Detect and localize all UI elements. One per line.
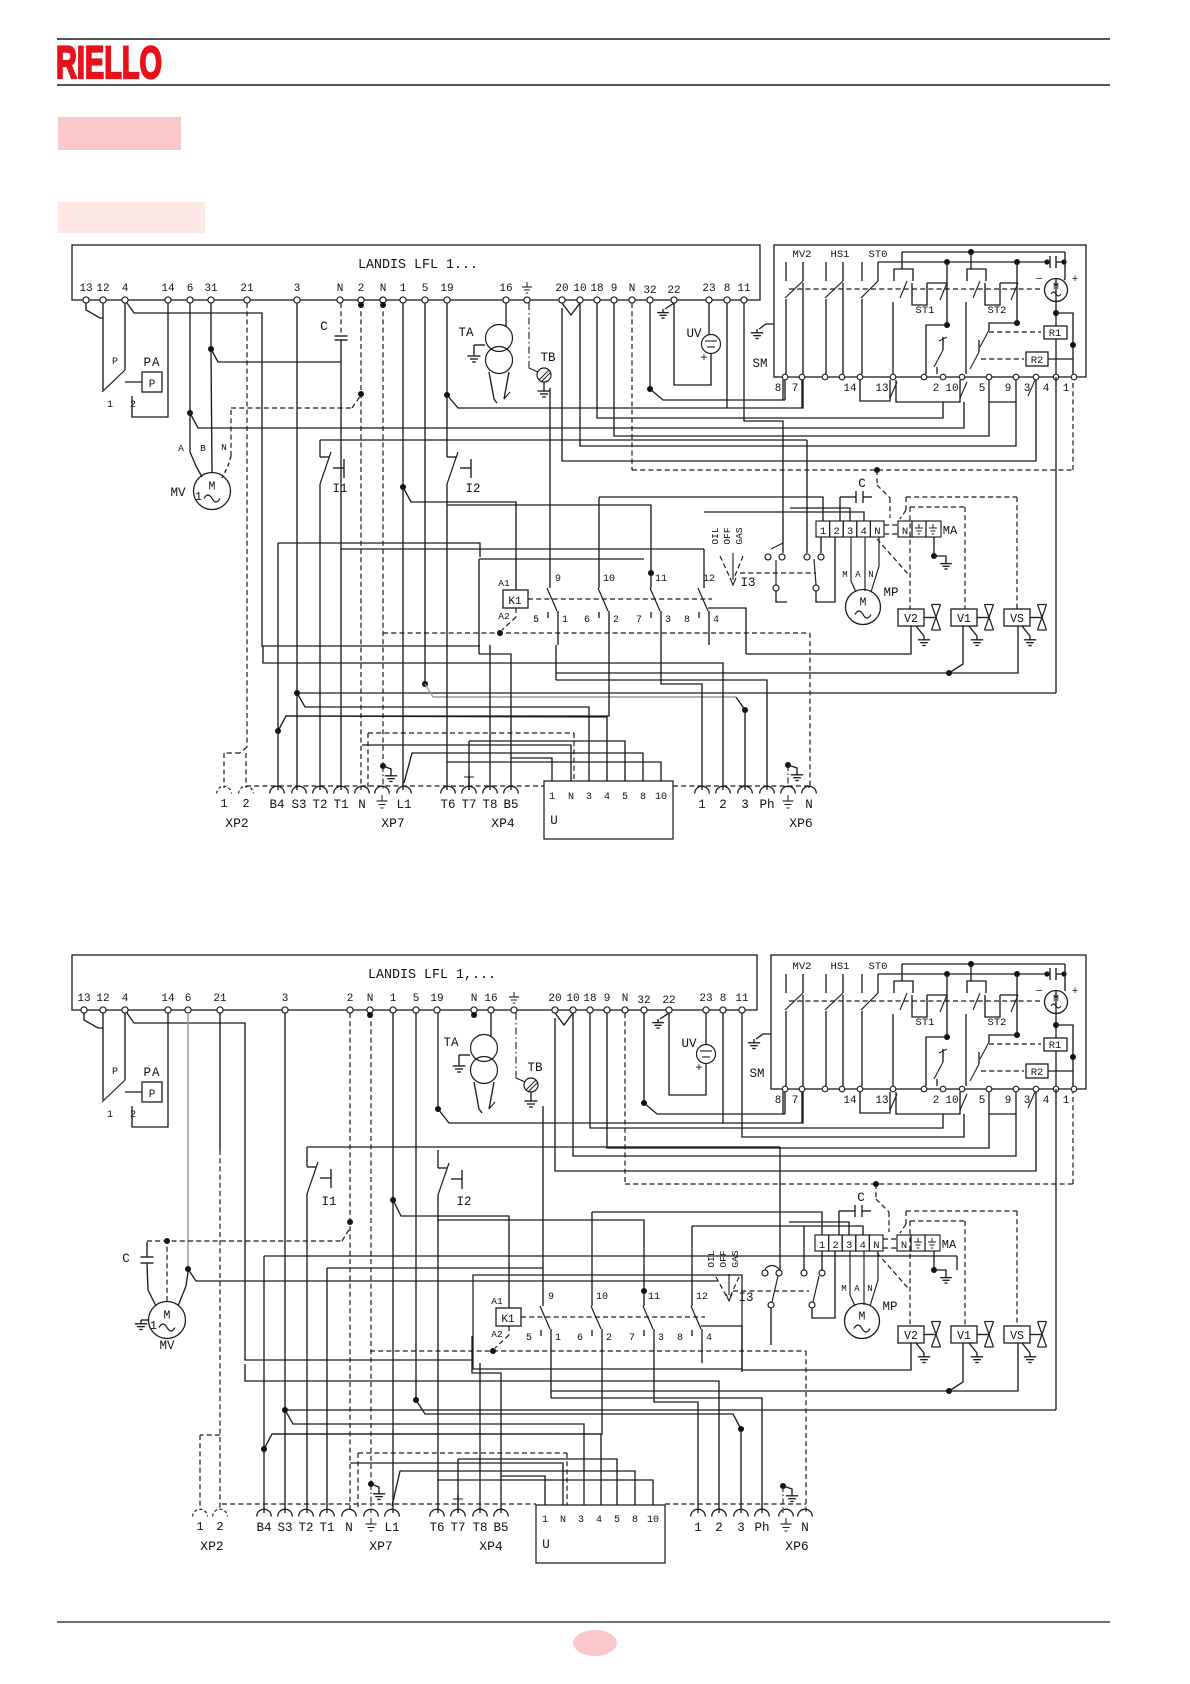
svg-text:11: 11 [737, 283, 751, 295]
valve V2 d2 [898, 1326, 924, 1343]
wire P-2 to terminal 14 d2 [132, 1013, 168, 1127]
svg-text:UV: UV [686, 327, 702, 341]
V1 VS return wires [946, 670, 952, 676]
wire terminal 5 down [424, 303, 426, 684]
svg-text:N: N [874, 526, 880, 538]
SM mid contact [942, 337, 944, 350]
dashed enclosure XP7-U [368, 732, 574, 734]
svg-text:4: 4 [706, 1333, 712, 1344]
svg-text:2: 2 [832, 1240, 838, 1252]
svg-text:PA: PA [143, 1066, 160, 1080]
svg-text:7: 7 [636, 615, 642, 626]
MA-3 feed d2 [789, 1222, 849, 1235]
header rule bottom [57, 84, 1110, 86]
svg-text:10: 10 [945, 1095, 958, 1107]
svg-text:UV: UV [681, 1037, 697, 1051]
svg-text:10: 10 [603, 574, 615, 585]
svg-text:SM: SM [752, 357, 767, 371]
svg-text:2: 2 [613, 615, 619, 626]
relay K1 assembly frame [479, 558, 644, 560]
svg-text:K1: K1 [508, 596, 522, 608]
wire I2 to K1-11 [446, 484, 448, 790]
svg-text:T7: T7 [450, 1521, 465, 1535]
SM top feed buses [902, 251, 1065, 253]
T7 break d2 [457, 1495, 459, 1513]
dashed enclosure XP7-U d2 [358, 1452, 567, 1454]
bus terminal 32 to SM-8 d2 [644, 1092, 783, 1114]
dashed neutral bus under K1 to XP6-N d2 [370, 1350, 806, 1352]
XP7 ground d2 [368, 1481, 374, 1487]
svg-text:B4: B4 [256, 1521, 271, 1535]
svg-text:ST0: ST0 [869, 961, 888, 973]
svg-text:GAS: GAS [730, 1250, 741, 1267]
bus S3 to SM servomotor loop [297, 692, 1056, 694]
svg-text:−: − [1036, 274, 1043, 286]
dashed enclosure XP7-XP4-XP6 d2 [222, 1503, 536, 1505]
svg-text:23: 23 [702, 283, 715, 295]
grey wire terminal 6 to MV [187, 1013, 189, 1269]
svg-text:5: 5 [622, 792, 628, 803]
svg-text:MV2: MV2 [793, 961, 812, 973]
svg-text:22: 22 [667, 285, 680, 297]
svg-text:7: 7 [792, 1095, 799, 1107]
svg-text:3: 3 [741, 798, 749, 812]
svg-text:A: A [855, 570, 861, 580]
svg-text:12: 12 [696, 1292, 708, 1303]
svg-text:Ph: Ph [759, 798, 774, 812]
svg-text:2: 2 [130, 400, 136, 411]
svg-text:I3: I3 [738, 1291, 753, 1305]
svg-text:1: 1 [400, 283, 407, 295]
MA ground d2 [933, 1251, 935, 1270]
svg-text:18: 18 [590, 283, 603, 295]
wire SM-8 vertical d2 [784, 1092, 786, 1114]
svg-text:MP: MP [882, 1300, 897, 1314]
terminal strip XP2 d2 [193, 1509, 208, 1516]
svg-text:5: 5 [979, 383, 986, 395]
dashed enclosure XP7-XP4-XP6 [246, 785, 544, 787]
svg-text:20: 20 [548, 993, 561, 1005]
svg-text:12: 12 [96, 993, 109, 1005]
svg-text:I2: I2 [465, 482, 480, 496]
pressure switch P d2 [124, 1013, 126, 1080]
branch to SM-1 d2 [1056, 1025, 1073, 1086]
svg-text:18: 18 [583, 993, 596, 1005]
svg-text:9: 9 [548, 1292, 554, 1303]
svg-text:M: M [164, 1310, 171, 1323]
svg-text:ST1: ST1 [916, 1017, 935, 1029]
svg-text:3: 3 [586, 792, 592, 803]
B5 feed [479, 654, 511, 790]
dashed neutral terminal N d2 [370, 1013, 372, 1482]
MV ground d2 [141, 1319, 149, 1321]
svg-text:14: 14 [843, 1095, 857, 1107]
B4 feed from K1-2 [278, 645, 609, 731]
wire terminal 11 to SM-5 d2 [742, 1013, 964, 1137]
SM internal dashed linkage [789, 288, 1040, 290]
svg-text:VS: VS [1010, 1330, 1024, 1343]
valve V1 [951, 609, 977, 626]
svg-text:23: 23 [699, 993, 712, 1005]
svg-text:OIL: OIL [710, 527, 721, 544]
svg-text:16: 16 [484, 993, 497, 1005]
svg-text:12: 12 [96, 283, 109, 295]
svg-text:T7: T7 [461, 798, 476, 812]
U box [544, 781, 673, 839]
terminal strip XP4 d2 [430, 1509, 445, 1516]
dashed wire terminal 21 to XP2 [246, 303, 248, 747]
svg-text:19: 19 [430, 993, 443, 1005]
svg-text:1: 1 [1063, 383, 1070, 395]
svg-text:A1: A1 [491, 1296, 503, 1307]
B4 feed from K1-2 d2 [264, 1363, 602, 1449]
svg-text:XP6: XP6 [785, 1539, 808, 1554]
svg-text:3: 3 [578, 1515, 584, 1526]
svg-text:31: 31 [204, 283, 218, 295]
svg-text:N: N [867, 1284, 872, 1294]
svg-text:ST2: ST2 [988, 305, 1007, 317]
XP6-2 feed [263, 646, 723, 790]
svg-text:2: 2 [216, 1520, 223, 1534]
svg-text:C: C [858, 477, 866, 491]
XP6 ground [785, 762, 791, 768]
K1 coil dashed actuation [528, 598, 712, 600]
svg-text:9: 9 [604, 993, 611, 1005]
SM aux contact to R1 d2 [980, 1042, 989, 1059]
relay K1 assembly box d2 [473, 1275, 742, 1369]
wire terminal 5 down d2 [415, 1013, 417, 1400]
svg-text:1: 1 [698, 798, 706, 812]
svg-text:C: C [122, 1252, 130, 1266]
svg-text:12: 12 [703, 574, 715, 585]
terminal strip MA [816, 521, 830, 537]
svg-text:1: 1 [819, 1240, 825, 1252]
svg-text:HS1: HS1 [831, 961, 850, 973]
svg-text:XP2: XP2 [225, 816, 248, 831]
MA N-box dashed to valve enclosure [877, 539, 908, 574]
svg-text:1: 1 [1063, 1095, 1070, 1107]
B4 top feed [278, 543, 480, 557]
feed to K1-9 [549, 388, 551, 588]
wire terminal 20 to SM-4 [562, 308, 1036, 461]
svg-text:R2: R2 [1031, 355, 1044, 367]
footer pink oval [573, 1630, 617, 1656]
svg-text:K1: K1 [501, 1314, 515, 1326]
SM ground d2 [756, 1034, 771, 1039]
svg-text:13: 13 [77, 993, 90, 1005]
XP6 Ph feed from K1-1 d2 [551, 1398, 762, 1513]
svg-text:1: 1 [107, 1110, 113, 1121]
svg-text:7: 7 [629, 1333, 635, 1344]
svg-text:SM: SM [749, 1067, 764, 1081]
U staircase wires d2 [458, 1459, 617, 1505]
MA N-box dashed to valve enclosure d2 [877, 1253, 908, 1288]
svg-text:Ph: Ph [754, 1521, 769, 1535]
SM terminals [782, 374, 788, 380]
wire terminal 8 to bus d2 [722, 1013, 724, 1123]
relay R1 [1044, 326, 1067, 339]
svg-text:10: 10 [945, 383, 958, 395]
svg-text:OFF: OFF [722, 527, 733, 544]
svg-text:L1: L1 [396, 798, 411, 812]
svg-text:B: B [200, 443, 206, 454]
svg-text:4: 4 [596, 1515, 602, 1526]
svg-text:1: 1 [150, 1320, 157, 1333]
svg-text:6: 6 [185, 993, 192, 1005]
svg-text:20: 20 [555, 283, 568, 295]
valve V2 [898, 609, 924, 626]
dots terminals N d2 [367, 1012, 373, 1018]
SM terminals d2 [782, 1086, 788, 1092]
svg-text:L1: L1 [384, 1521, 399, 1535]
terminal 22 ground tick [665, 303, 674, 309]
SM top feed buses d2 [902, 963, 1065, 965]
K1-10 feed with MA-1 [598, 497, 600, 588]
XP7 ground [380, 763, 386, 769]
svg-text:N: N [901, 1240, 907, 1252]
svg-text:A2: A2 [491, 1329, 503, 1340]
svg-text:4: 4 [1043, 383, 1050, 395]
wire terminal 32 down [649, 303, 651, 389]
svg-text:A: A [178, 443, 184, 454]
svg-text:V2: V2 [904, 1330, 918, 1343]
T1 feed rail [341, 548, 704, 550]
svg-text:P: P [149, 379, 156, 391]
svg-text:1: 1 [390, 993, 397, 1005]
jumper terminals 20-10 d2 [555, 1013, 573, 1025]
U staircase wires [469, 741, 625, 781]
branch terminal 1 to K1 coil A1 d2 [393, 1200, 509, 1308]
svg-text:C: C [320, 320, 328, 334]
K1-10 feed with MA-1 d2 [591, 1212, 593, 1306]
terminal strip MA d2 [815, 1235, 829, 1251]
svg-text:S3: S3 [277, 1521, 292, 1535]
svg-text:N: N [629, 283, 636, 295]
SM motor [1045, 279, 1068, 302]
SM pair jumpers d2 [860, 1092, 890, 1113]
K1-12 feed with MA-4 d2 [691, 1226, 693, 1306]
svg-text:8: 8 [724, 283, 731, 295]
bus terminal 19 to SM-7 d2 [438, 1092, 803, 1123]
svg-text:A1: A1 [498, 578, 510, 589]
wire terminal 8 to bus [726, 303, 728, 408]
wire terminal 9 to SM-2 [614, 303, 989, 436]
svg-text:2: 2 [347, 993, 354, 1005]
terminal strip XP7 d2 [257, 1509, 272, 1516]
svg-text:3: 3 [737, 1521, 745, 1535]
SM cable slashes d2 [890, 1094, 897, 1110]
svg-text:3: 3 [665, 615, 671, 626]
svg-text:1: 1 [542, 1515, 548, 1526]
wire 12 to P switch d2 [102, 1013, 104, 1100]
svg-text:N: N [805, 798, 813, 812]
dashed neutral from terminal 2 down to XP7-N [360, 303, 362, 790]
svg-text:2: 2 [606, 1333, 612, 1344]
aux pair2 feeds [806, 440, 808, 553]
svg-text:1: 1 [196, 1520, 203, 1534]
svg-text:MV2: MV2 [793, 249, 812, 261]
svg-text:N: N [471, 993, 478, 1005]
SM contact to R2 [978, 340, 980, 352]
dashed neutral terminal N to distribution [382, 303, 384, 764]
svg-text:ST1: ST1 [916, 305, 935, 317]
svg-text:ST2: ST2 [988, 1017, 1007, 1029]
svg-text:32: 32 [643, 285, 656, 297]
grey bus to XP6-3 [425, 684, 433, 697]
safety valve VS d2 [1004, 1326, 1030, 1343]
I3 dashed link d2 [733, 1290, 809, 1292]
svg-text:VS: VS [1010, 613, 1024, 626]
svg-text:V2: V2 [904, 613, 918, 626]
valve area dashed enclosures d2 [906, 1210, 1017, 1212]
K1 coil dashed actuation d2 [521, 1316, 705, 1318]
svg-text:XP7: XP7 [369, 1539, 392, 1554]
svg-text:OFF: OFF [718, 1250, 729, 1267]
svg-text:T2: T2 [312, 798, 327, 812]
svg-text:+: + [1072, 274, 1079, 286]
svg-text:+: + [700, 351, 707, 365]
wire terminal 3 down to S3 d2 [284, 1013, 286, 1513]
svg-text:OIL: OIL [706, 1250, 717, 1267]
svg-text:21: 21 [213, 993, 227, 1005]
T8 vertical [489, 645, 491, 790]
header rule top [57, 38, 1110, 40]
SM aux contact to R1 [980, 330, 989, 347]
svg-text:10: 10 [596, 1292, 608, 1303]
svg-text:7: 7 [792, 383, 799, 395]
MV motor leads A B N [189, 413, 191, 452]
svg-text:TA: TA [443, 1036, 459, 1050]
svg-text:5: 5 [979, 1095, 986, 1107]
motor to R1 d2 [1055, 991, 1057, 1014]
svg-text:2: 2 [719, 798, 727, 812]
svg-text:5: 5 [526, 1333, 532, 1344]
svg-text:8: 8 [775, 1095, 782, 1107]
bus MV to I3 [188, 1269, 718, 1281]
SM cable slashes [890, 382, 897, 398]
SM contact to R2 d2 [978, 1052, 980, 1064]
valve area dashed enclosures [906, 496, 1017, 498]
V2 return wire d2 [701, 1326, 742, 1372]
svg-text:T8: T8 [472, 1521, 487, 1535]
svg-text:3: 3 [294, 283, 301, 295]
branch terminal 1 to K1 coil A1 [403, 487, 516, 590]
svg-text:1: 1 [562, 615, 568, 626]
svg-text:8: 8 [632, 1515, 638, 1526]
svg-text:11: 11 [648, 1292, 660, 1303]
I3 dashed link [740, 572, 816, 574]
svg-text:MV: MV [170, 486, 186, 500]
pink label box 1 [58, 117, 181, 150]
wire terminal 21 down to XP2 [219, 1013, 221, 1150]
dashed neutral terminal 2 to XP7-N d2 [349, 1013, 351, 1513]
svg-text:T1: T1 [333, 798, 348, 812]
wire SM-7 vertical d2 [801, 1092, 803, 1123]
svg-text:MA: MA [943, 524, 958, 538]
svg-text:14: 14 [161, 993, 175, 1005]
svg-text:N: N [337, 283, 344, 295]
svg-text:1: 1 [195, 491, 202, 504]
svg-text:1: 1 [820, 526, 826, 538]
K1 coil [503, 590, 528, 608]
svg-text:22: 22 [662, 995, 675, 1007]
SM pair jumpers [860, 380, 890, 401]
svg-text:4: 4 [122, 283, 129, 295]
svg-text:3: 3 [847, 526, 853, 538]
svg-text:RIELLO: RIELLO [56, 37, 162, 88]
bus S3 to servomotor loop d2 [285, 1409, 1056, 1411]
svg-text:A: A [854, 1284, 860, 1294]
svg-text:9: 9 [555, 574, 561, 585]
svg-text:4: 4 [713, 615, 719, 626]
svg-text:9: 9 [611, 283, 618, 295]
terminal 22 ground tick d2 [660, 1013, 669, 1019]
svg-text:T8: T8 [482, 798, 497, 812]
svg-text:+: + [695, 1061, 702, 1075]
footer rule [57, 1621, 1110, 1623]
svg-text:11: 11 [735, 993, 749, 1005]
relay R1 d2 [1044, 1038, 1067, 1051]
valve V1 d2 [951, 1326, 977, 1343]
svg-text:10: 10 [655, 792, 667, 803]
outer servomotor loop d2 [1055, 1089, 1057, 1410]
svg-text:I2: I2 [456, 1195, 471, 1209]
svg-text:I1: I1 [332, 482, 347, 496]
XP6-2 feed d2 [245, 1364, 719, 1513]
svg-text:R2: R2 [1031, 1067, 1044, 1079]
dashed from C to neutral [147, 1240, 342, 1242]
wire terminal 20 to SM-4 d2 [555, 1018, 1036, 1171]
svg-text:LANDIS LFL 1,...: LANDIS LFL 1,... [368, 968, 496, 983]
svg-text:N: N [221, 442, 227, 453]
svg-text:S3: S3 [291, 798, 306, 812]
svg-text:2: 2 [715, 1521, 723, 1535]
T6 branch to K1-11 join [437, 1219, 438, 1221]
XP6 ground d2 [780, 1483, 786, 1489]
svg-text:+: + [1072, 986, 1079, 998]
svg-text:M: M [209, 481, 216, 494]
wire terminal 4 branch to K1 coil d2 [127, 1013, 473, 1360]
dot terminal 2 [358, 302, 364, 308]
XP6-1 feed from K1-3 d2 [654, 1363, 698, 1513]
svg-text:32: 32 [637, 995, 650, 1007]
dashed wire terminal N to SM-1 d2 [624, 1013, 626, 1184]
dot on K1-11 feed d2 [641, 1288, 647, 1294]
wire terminal 1 down to L1 [402, 303, 404, 790]
svg-text:2: 2 [833, 526, 839, 538]
svg-text:8: 8 [720, 993, 727, 1005]
svg-text:N: N [568, 792, 574, 803]
svg-text:3: 3 [282, 993, 289, 1005]
svg-text:19: 19 [440, 283, 453, 295]
svg-text:A2: A2 [498, 611, 510, 622]
bus terminal 32 to SM-8 [650, 380, 783, 400]
branch to SM-1 [1056, 313, 1073, 374]
relay R2 d2 [1026, 1064, 1048, 1078]
MA-3 feed [790, 508, 850, 521]
svg-text:MP: MP [883, 586, 898, 600]
wire terminal 19 down to I2 [446, 303, 448, 395]
wire terminal 4 branch to K1 coil [127, 303, 480, 646]
wire P-2 to terminal 14 [132, 303, 168, 417]
svg-text:2: 2 [933, 383, 940, 395]
terminal 13 hook wire d2 [84, 1013, 103, 1028]
svg-text:21: 21 [240, 283, 254, 295]
terminal strip XP6 [695, 786, 710, 793]
svg-text:9: 9 [1005, 383, 1012, 395]
svg-text:N: N [358, 798, 366, 812]
svg-text:2: 2 [130, 1110, 136, 1121]
